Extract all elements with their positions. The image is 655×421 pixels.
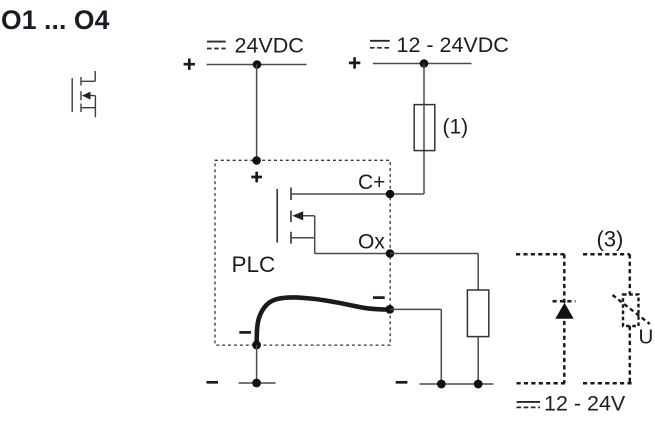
- node box top: [252, 156, 261, 165]
- wire supply to PLC box: [256, 65, 258, 161]
- varistor branch bottom lead: [583, 382, 632, 385]
- svg-text:C+: C+: [358, 171, 385, 194]
- minus label at thick wire bottom: [239, 331, 251, 334]
- icon body wire: [89, 96, 96, 118]
- wire box bottom to rail: [256, 345, 258, 383]
- mosfet icon (legend, top-left): [72, 71, 95, 117]
- node on left supply: [253, 60, 262, 69]
- wire left supply rail: [207, 64, 307, 66]
- icon source lead: [81, 107, 95, 109]
- plus sign left supply: [184, 59, 195, 70]
- wire drain to C+ and fuse: [291, 193, 424, 195]
- DC symbol bottom right: [517, 402, 541, 408]
- svg-text:(1): (1): [443, 116, 469, 139]
- load resistor body: [467, 290, 488, 337]
- diode D (freewheel): [555, 303, 573, 319]
- varistor branch top lead: [583, 253, 630, 256]
- wire Ox node to load resistor: [390, 254, 478, 291]
- icon body arrow: [82, 92, 91, 100]
- minus label at thick wire right: [373, 296, 385, 299]
- varistor body: [623, 295, 639, 327]
- svg-text:Ox: Ox: [358, 231, 385, 254]
- minus sign bottom right: [396, 381, 408, 384]
- wire source: [291, 238, 390, 254]
- mosfet gate: [276, 189, 278, 243]
- node on right supply: [420, 59, 429, 68]
- DC symbol left supply: [207, 42, 226, 49]
- svg-text:U: U: [639, 326, 654, 349]
- suppressor diode branch (dashed, optional): [516, 254, 576, 383]
- varistor branch (dashed, optional): [583, 254, 632, 383]
- varistor branch vertical: [629, 254, 632, 383]
- diode branch vertical: [563, 254, 566, 383]
- wire supply to fuse and C+: [423, 64, 425, 195]
- minus sign bottom left: [207, 381, 219, 384]
- bottom-left rail: [239, 382, 276, 384]
- icon drain lead: [81, 71, 95, 81]
- diode branch bottom lead: [517, 382, 566, 385]
- plus sign inside box: [251, 172, 262, 183]
- mosfet channel ticks: [290, 188, 292, 244]
- diode cathode bar: [553, 300, 576, 303]
- icon gate: [71, 78, 73, 112]
- mosfet body arrow: [292, 211, 303, 220]
- node bottom-left rail: [252, 379, 261, 388]
- node thick wire bottom: [252, 341, 261, 350]
- node rail junction left: [437, 380, 446, 389]
- svg-text:O1 ... O4: O1 ... O4: [1, 5, 110, 35]
- transistor (PLC output mosfet): [277, 188, 291, 244]
- thick jumper wire inside PLC: [257, 297, 390, 345]
- svg-text:(3): (3): [597, 227, 624, 252]
- fuse (1) body: [414, 105, 435, 151]
- diode branch top lead: [516, 253, 564, 256]
- wire load resistor to bottom rail: [477, 337, 479, 384]
- node thick wire right (box edge): [385, 305, 394, 314]
- node C+: [386, 190, 395, 199]
- svg-text:12 - 24V: 12 - 24V: [544, 392, 626, 416]
- plus sign right supply: [349, 57, 360, 68]
- node rail junction right: [474, 380, 483, 389]
- svg-text:24VDC: 24VDC: [235, 34, 304, 58]
- svg-text:PLC: PLC: [232, 252, 276, 277]
- bottom-right rail: [420, 383, 494, 385]
- svg-text:12 - 24VDC: 12 - 24VDC: [397, 33, 509, 57]
- node Ox: [386, 249, 395, 258]
- DC symbol right supply: [370, 41, 390, 48]
- wire right supply rail: [373, 63, 472, 65]
- varistor diagonal stroke: [613, 295, 650, 324]
- wire body to source: [303, 216, 315, 238]
- PLC dashed box: [215, 160, 390, 345]
- wire thick-wire node to bottom rail: [390, 309, 442, 384]
- icon channel ticks: [80, 77, 82, 112]
